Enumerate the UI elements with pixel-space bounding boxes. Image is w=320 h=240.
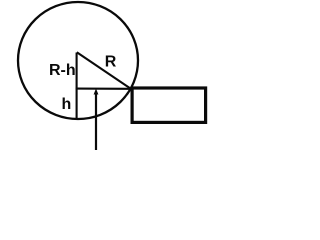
svg-text:R-h: R-h: [49, 62, 76, 79]
svg-text:R: R: [105, 54, 117, 71]
svg-text:h: h: [62, 96, 72, 113]
wire hypotenuse R: [77, 52, 132, 89]
wire vertical radius line (center to circle bottom): [76, 53, 78, 119]
arrow pointing to chord: [94, 89, 99, 151]
wire chord horizontal line: [76, 88, 132, 90]
rectangle: [132, 88, 206, 122]
circle of radius R: [18, 2, 138, 119]
